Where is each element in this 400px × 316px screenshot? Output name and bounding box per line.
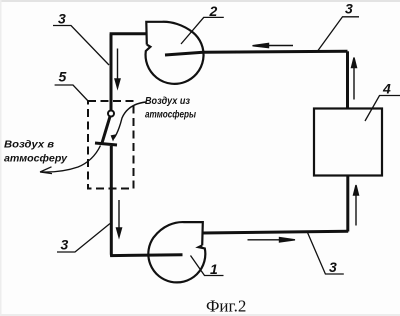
svg-text:Воздух из: Воздух из [145, 95, 191, 107]
svg-text:Воздух в: Воздух в [4, 139, 55, 151]
svg-text:4: 4 [382, 81, 391, 97]
svg-text:3: 3 [61, 237, 69, 253]
svg-text:Фиг.2: Фиг.2 [206, 297, 246, 316]
svg-text:1: 1 [210, 261, 218, 277]
svg-text:2: 2 [209, 3, 218, 19]
svg-text:3: 3 [329, 259, 337, 275]
svg-text:5: 5 [59, 69, 67, 85]
svg-text:3: 3 [58, 11, 66, 27]
svg-text:атмосферу: атмосферу [4, 153, 68, 165]
svg-text:3: 3 [345, 1, 353, 17]
svg-text:атмосферы: атмосферы [145, 109, 196, 121]
